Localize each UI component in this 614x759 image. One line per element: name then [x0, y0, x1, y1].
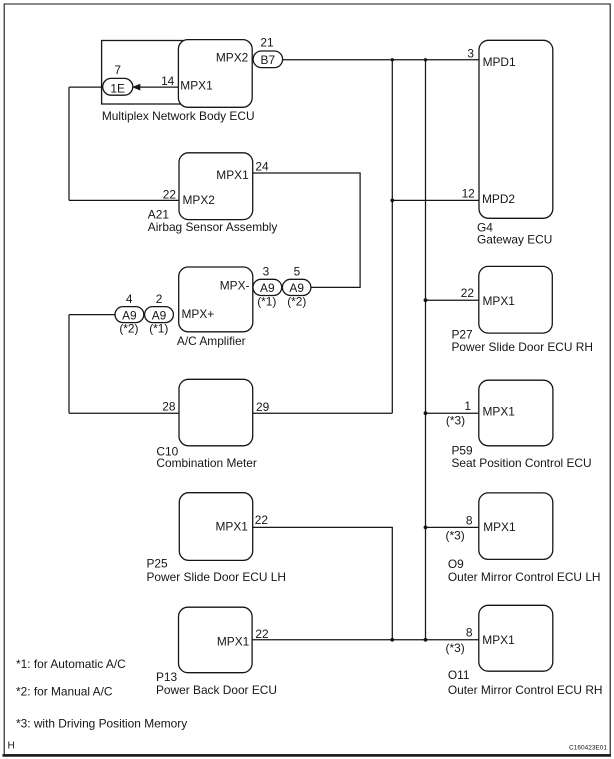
svg-text:8: 8 — [466, 625, 473, 639]
svg-text:Gateway ECU: Gateway ECU — [477, 233, 552, 247]
svg-text:H: H — [8, 741, 15, 752]
ECU box O9 Outer Mirror Control ECU LH — [479, 493, 553, 560]
svg-text:Outer Mirror Control ECU RH: Outer Mirror Control ECU RH — [448, 683, 603, 697]
ECU box P59 Seat Position Control ECU — [479, 380, 553, 446]
svg-text:Airbag Sensor Assembly: Airbag Sensor Assembly — [148, 220, 278, 234]
svg-text:Multiplex Network Body ECU: Multiplex Network Body ECU — [102, 109, 255, 123]
svg-text:7: 7 — [114, 63, 121, 77]
svg-text:MPD1: MPD1 — [483, 55, 516, 69]
svg-text:28: 28 — [162, 400, 176, 414]
svg-text:*1: for Automatic A/C: *1: for Automatic A/C — [16, 657, 126, 671]
ECU box P13 Power Back Door ECU — [179, 607, 253, 673]
svg-text:MPX2: MPX2 — [183, 193, 216, 207]
ECU box P27 Power Slide Door ECU RH — [479, 266, 553, 333]
wire P13 pin22 long horizontal to O11 pin8 — [252, 639, 479, 641]
connector oval A9 pin4 — [115, 307, 144, 323]
svg-text:2: 2 — [156, 292, 163, 306]
junction trunk joins bottom row — [424, 638, 428, 642]
svg-text:MPD2: MPD2 — [482, 192, 515, 206]
svg-text:Power Slide Door ECU RH: Power Slide Door ECU RH — [452, 340, 593, 354]
svg-text:A9: A9 — [289, 281, 304, 295]
svg-text:Outer Mirror Control ECU LH: Outer Mirror Control ECU LH — [448, 570, 601, 584]
svg-text:A9: A9 — [122, 309, 137, 323]
svg-text:O11: O11 — [448, 668, 470, 682]
wire vertical left bus upper (1E to Airbag 22) — [68, 87, 70, 200]
wire P25 pin22 to vertical 392 lower — [253, 527, 393, 639]
junction P27 tap — [424, 298, 428, 302]
svg-text:MPX1: MPX1 — [216, 519, 249, 533]
svg-text:5: 5 — [294, 265, 301, 279]
ECU outer rect: Multiplex Network Body ECU — [102, 41, 183, 105]
wire 1E oval to left vertical — [69, 86, 110, 88]
wire O9 pin8 stub — [426, 526, 479, 528]
wire C10 pin28 horizontal — [69, 412, 179, 414]
wire Airbag pin22 horizontal — [69, 199, 179, 201]
ECU box G4 Gateway ECU — [479, 40, 553, 218]
svg-text:O9: O9 — [448, 557, 464, 571]
svg-text:MPX1: MPX1 — [216, 168, 249, 182]
svg-text:22: 22 — [255, 513, 269, 527]
junction at trunk top x425 — [424, 58, 427, 61]
connector oval A9 pin5 — [282, 279, 311, 295]
svg-text:MPX+: MPX+ — [182, 307, 215, 321]
svg-text:(*3): (*3) — [446, 529, 465, 543]
svg-text:A9: A9 — [152, 309, 167, 323]
svg-text:Seat Position Control ECU: Seat Position Control ECU — [452, 456, 592, 470]
junction at trunk top x392 — [391, 58, 394, 61]
ECU box O11 Outer Mirror Control ECU RH — [479, 605, 553, 671]
svg-text:MPX1: MPX1 — [483, 294, 516, 308]
ECU box C10 Combination Meter — [179, 379, 253, 446]
svg-text:(*3): (*3) — [446, 413, 465, 427]
svg-text:22: 22 — [255, 627, 269, 641]
wire C10 pin29 to vertical 392 — [253, 412, 393, 414]
wire P27 pin22 stub — [426, 299, 479, 301]
ECU box U1 Multiplex Network Body ECU — [178, 40, 252, 108]
wire Airbag pin24 to vertical 360 — [253, 173, 360, 287]
junction P25 branch joins bottom row — [390, 638, 394, 642]
wire vertical 425 trunk (top to bottom row) — [425, 60, 427, 640]
svg-text:(*1): (*1) — [257, 294, 276, 308]
svg-text:1E: 1E — [110, 81, 125, 95]
wire A/C left A9 to vertical bus — [69, 314, 122, 316]
svg-text:3: 3 — [467, 46, 474, 60]
junction MPD2 tap — [390, 199, 394, 203]
svg-text:A/C Amplifier: A/C Amplifier — [177, 334, 246, 348]
svg-text:(*3): (*3) — [446, 641, 465, 655]
wire vertical left bus lower (A9 to C10 28) — [68, 315, 70, 414]
svg-text:Combination Meter: Combination Meter — [156, 456, 256, 470]
svg-text:3: 3 — [263, 265, 270, 279]
wire P59 pin1 stub — [426, 412, 479, 414]
wire B7 to MPD1 trunk top — [268, 59, 479, 61]
svg-text:Power Back Door ECU: Power Back Door ECU — [156, 683, 277, 697]
svg-text:(*2): (*2) — [287, 294, 306, 308]
svg-text:MPX1: MPX1 — [217, 635, 250, 649]
svg-text:Power Slide Door ECU LH: Power Slide Door ECU LH — [147, 570, 286, 584]
svg-text:14: 14 — [161, 74, 175, 88]
svg-text:(*1): (*1) — [149, 322, 168, 336]
svg-text:B7: B7 — [261, 53, 276, 67]
svg-text:P25: P25 — [147, 557, 169, 571]
svg-text:MPX2: MPX2 — [216, 51, 249, 65]
wire vertical 392 upper (trunk top to C10 29) — [391, 60, 393, 413]
connector oval B7 — [253, 51, 283, 68]
wire MPX1 pin14 arrow line — [139, 86, 178, 88]
junction P59 tap — [424, 411, 428, 415]
svg-text:21: 21 — [260, 36, 274, 50]
connector oval A9 pin2 — [145, 307, 174, 323]
svg-text:4: 4 — [126, 292, 133, 306]
svg-text:8: 8 — [466, 513, 473, 527]
svg-text:12: 12 — [462, 186, 476, 200]
wire MPD2 horizontal from 392 — [392, 199, 479, 201]
connector oval A9 pin3 — [253, 279, 282, 295]
svg-text:*2: for Manual A/C: *2: for Manual A/C — [16, 685, 113, 699]
svg-text:A9: A9 — [260, 281, 275, 295]
svg-text:(*2): (*2) — [119, 322, 138, 336]
svg-text:29: 29 — [256, 400, 270, 414]
junction O9 tap — [424, 526, 428, 530]
svg-text:MPX1: MPX1 — [483, 404, 516, 418]
svg-text:22: 22 — [163, 187, 177, 201]
ECU box P25 Power Slide Door ECU LH — [179, 493, 252, 561]
svg-text:24: 24 — [255, 160, 269, 174]
svg-text:MPX-: MPX- — [220, 279, 250, 293]
ECU box A/C Amplifier — [179, 267, 253, 332]
svg-text:MPX1: MPX1 — [180, 79, 213, 93]
svg-text:22: 22 — [461, 286, 475, 300]
svg-text:MPX1: MPX1 — [483, 520, 516, 534]
connector oval 1E — [103, 78, 133, 95]
svg-text:MPX1: MPX1 — [482, 633, 515, 647]
svg-text:P13: P13 — [156, 670, 178, 684]
arrowhead into 1E oval — [132, 84, 140, 91]
svg-text:*3: with Driving Position Memo: *3: with Driving Position Memory — [16, 717, 187, 731]
svg-text:1: 1 — [464, 399, 471, 413]
bottom black bar — [3, 754, 612, 757]
svg-text:C160423E01: C160423E01 — [569, 744, 607, 751]
ECU box Airbag Sensor Assembly — [179, 153, 253, 220]
